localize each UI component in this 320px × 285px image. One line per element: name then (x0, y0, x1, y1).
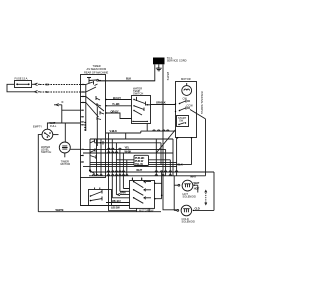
svg-text:BLK: BLK (178, 162, 183, 166)
wire row y139 (90, 139, 173, 176)
svg-text:SERVICE CORD: SERVICE CORD (167, 59, 187, 63)
water temp switch box (132, 96, 151, 124)
timer top contact (87, 77, 96, 83)
humps rows 149/153 (108, 148, 121, 153)
wire WLS full contact to timer (47, 123, 80, 129)
diagonal wire start sw to web (156, 130, 175, 153)
svg-text:SOLENOID: SOLENOID (183, 194, 197, 198)
svg-text:FULL: FULL (50, 124, 57, 128)
wire motor terminal down (176, 138, 178, 176)
svg-text:HOT: HOT (194, 187, 200, 191)
wire down to timer motor (64, 123, 66, 142)
connector labels (125, 146, 132, 154)
wires below motor switch (136, 208, 138, 211)
wire row y172 loop to cold valve (90, 172, 214, 210)
wire vertical x116.4 BRN (115, 143, 117, 195)
timer inner verticals lower (97, 139, 102, 176)
service cord label (167, 56, 187, 63)
wire OR-GY timer to temp switch (106, 113, 132, 119)
svg-text:WHT: WHT (190, 174, 196, 178)
svg-text:SW: SW (179, 119, 184, 123)
svg-text:MOTOR: MOTOR (61, 162, 71, 166)
WTS to motor wire (151, 104, 176, 106)
wire row y149.4 (83, 149, 166, 175)
wire vertical x161.6 (161, 172, 163, 199)
wire temp switch bottom down (146, 124, 148, 132)
timer box (81, 75, 106, 178)
wire row y142.8 (95, 143, 162, 165)
right rail dashes (205, 191, 207, 205)
motor bottom terminals (177, 137, 179, 139)
svg-text:OR-BLK: OR-BLK (156, 101, 166, 105)
valve left rail (173, 176, 175, 211)
connector arrows (35, 83, 41, 85)
diagonal wire to right rail (190, 110, 206, 176)
timer inner vertical (96, 107, 98, 146)
wire row y159.8 (116, 159, 170, 161)
svg-text:WHITE: WHITE (56, 208, 64, 212)
wire black from plug to timer (99, 67, 155, 81)
wire timer motor to timer (70, 148, 80, 150)
motor box (176, 82, 197, 138)
svg-text:REAR OF MACHINE: REAR OF MACHINE (84, 71, 108, 75)
svg-text:BU-GY: BU-GY (113, 96, 121, 100)
wire connector to timer (62, 109, 81, 111)
timer lower interior (89, 139, 91, 171)
svg-text:WHT: WHT (194, 181, 200, 185)
connector mid-left (54, 104, 59, 106)
wire row y162.4 (90, 161, 177, 163)
wire V-BLK from timer (106, 131, 141, 133)
hot valve (182, 180, 193, 191)
svg-text:V-BLK: V-BLK (110, 129, 118, 133)
wire BU-GY timer to temp switch (106, 99, 132, 101)
wire vertical x108.5 to bottom (109, 133, 137, 211)
ground symbol (156, 67, 162, 71)
wire vertical x112.3 (112, 139, 129, 198)
timer motor circle (59, 142, 70, 153)
motor contacts (183, 97, 188, 101)
crossover humps row 175.8 (93, 175, 172, 176)
svg-text:FUSE 15 A.: FUSE 15 A. (15, 77, 29, 81)
service cord plug (153, 58, 165, 65)
svg-text:WH-BU: WH-BU (112, 199, 121, 203)
wire vertical x119.9 (120, 149, 130, 191)
wire row y153 (83, 153, 173, 176)
wire vertical x126.8 (126, 160, 128, 176)
dashed lines to timer (40, 84, 81, 86)
timer inner rail (85, 85, 87, 132)
svg-text:CCW: CCW (187, 104, 194, 108)
svg-text:LID SW: LID SW (111, 206, 120, 210)
humps row 172 (107, 171, 177, 172)
wire row y175.8 WHT bus (89, 175, 206, 177)
svg-text:EMPTY: EMPTY (33, 125, 42, 129)
wire WLS right terminal (53, 134, 59, 136)
water level switch circle (42, 129, 53, 140)
svg-text:YL-BK: YL-BK (112, 102, 120, 106)
svg-text:BLK: BLK (126, 77, 131, 81)
start switch (177, 116, 189, 127)
timer left terminals (81, 84, 84, 126)
svg-text:CW: CW (183, 97, 188, 101)
wire vertical x170.3 (169, 160, 171, 176)
svg-text:YEL: YEL (125, 146, 130, 150)
fuse loop wire (7, 84, 35, 92)
svg-text:CLD: CLD (195, 206, 200, 210)
svg-text:MOTOR: MOTOR (181, 77, 191, 81)
svg-text:SOLENOID: SOLENOID (182, 219, 196, 223)
wire WH-BU to motor switch (106, 202, 130, 204)
motor switch box (130, 181, 155, 209)
motor circle (182, 86, 192, 96)
WLS wires (38, 135, 42, 212)
svg-text:WHITE: WHITE (166, 72, 170, 81)
svg-text:SWITCH: SWITCH (41, 150, 51, 154)
svg-text:SWITCH: SWITCH (133, 92, 143, 96)
svg-text:OR-GY: OR-GY (111, 110, 119, 114)
timer contact arms (86, 97, 104, 118)
wire white from plug down to cold valve (163, 67, 177, 210)
timer box lower extension (81, 177, 130, 206)
wire bus y131 to motor with crossovers (141, 130, 176, 132)
rotated label right of motor (200, 91, 204, 114)
svg-text:AS SEEN FROM: AS SEEN FROM (87, 67, 107, 71)
fuse box left (15, 81, 32, 88)
cold valve (181, 205, 192, 216)
wire stub down (125, 133, 127, 139)
svg-text:INTERNAL WIRING: INTERNAL WIRING (200, 91, 204, 114)
svg-text:YEL-W: YEL-W (135, 162, 144, 166)
wire YL-BK timer to temp switch (106, 105, 132, 107)
svg-text:WHT: WHT (136, 168, 142, 172)
bottom bus (38, 211, 161, 213)
wire vertical x123.4 (123, 153, 129, 189)
wire row y166.4 (83, 165, 177, 167)
wire motor terminal to BLK row (191, 138, 193, 165)
svg-text:W-BK: W-BK (125, 149, 132, 153)
sub box under timer (89, 190, 112, 206)
wire row y164.6 BLK (90, 164, 192, 166)
svg-text:C: C (62, 100, 64, 104)
